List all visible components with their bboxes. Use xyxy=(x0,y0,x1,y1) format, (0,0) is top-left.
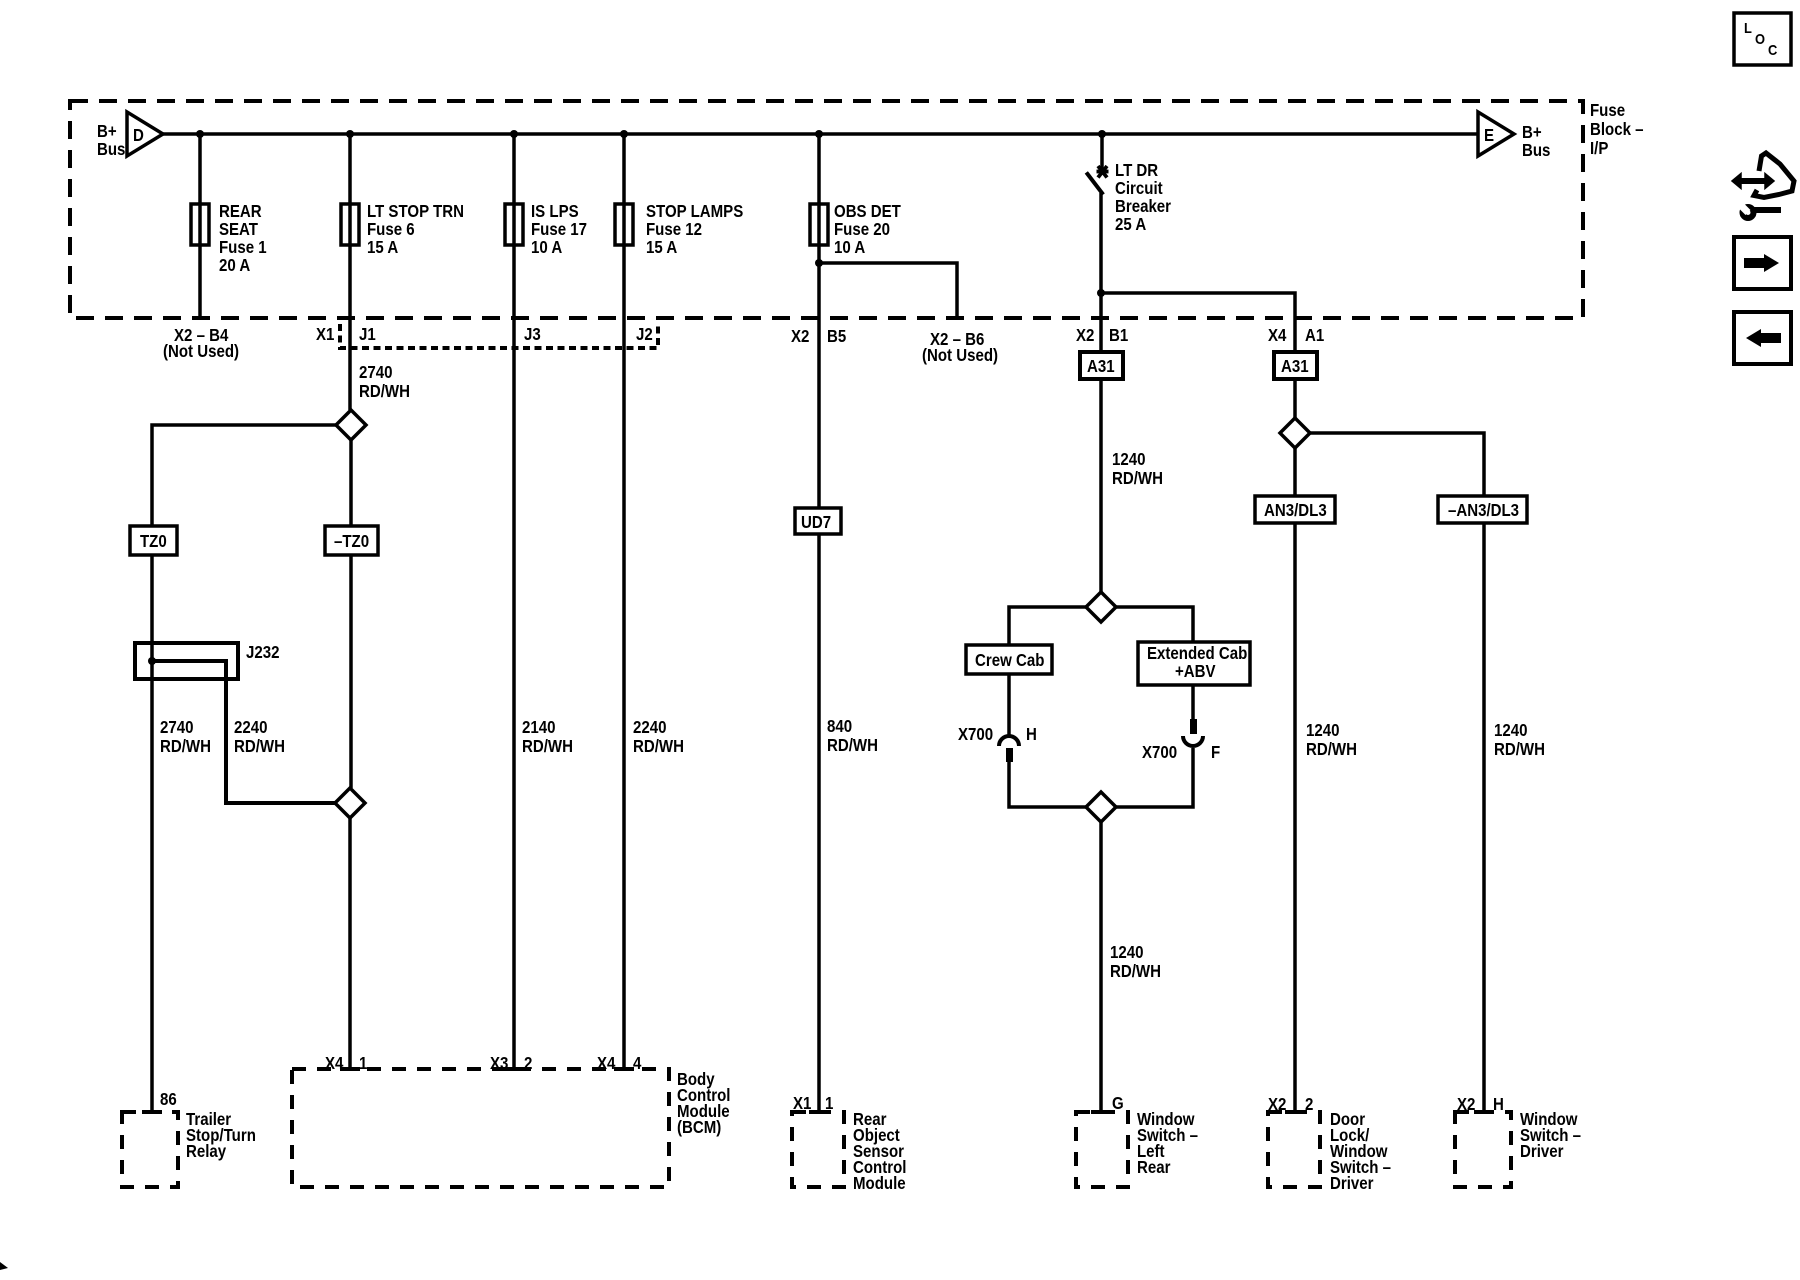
wire: splice S1 left branch xyxy=(152,425,336,526)
option box -AN3/DL3 xyxy=(1438,496,1527,523)
inner connector dotted bracket xyxy=(340,324,658,348)
B+ bus wire xyxy=(163,132,1479,136)
svg-text:4: 4 xyxy=(633,1054,641,1073)
fuse block I/P dashed outline xyxy=(70,101,1583,318)
svg-text:2240: 2240 xyxy=(234,718,267,737)
wire: X700 F down and to splice S4 xyxy=(1116,748,1193,807)
svg-text:1240: 1240 xyxy=(1494,721,1527,740)
connector label X2-B6 xyxy=(922,330,998,365)
legend doodle icon xyxy=(1732,153,1794,218)
wire: Extended Cab down to X700 F xyxy=(1191,685,1195,719)
svg-text:1240: 1240 xyxy=(1306,721,1339,740)
svg-text:I/P: I/P xyxy=(1590,139,1609,158)
window switch driver dashed box xyxy=(1455,1110,1581,1187)
svg-text:X1: X1 xyxy=(316,325,334,344)
svg-text:Driver: Driver xyxy=(1330,1174,1374,1193)
wire: J1 drop xyxy=(348,134,352,410)
pin labels X4 1 xyxy=(325,1054,367,1073)
node: bus junction at x=200 xyxy=(196,130,204,138)
svg-text:Driver: Driver xyxy=(1520,1142,1564,1161)
fuse F12 STOP LAMPS xyxy=(615,202,743,257)
wire: breaker drop top xyxy=(1100,134,1104,169)
wire label 2740 RD/WH xyxy=(160,718,211,756)
svg-text:B+: B+ xyxy=(97,122,117,141)
wire: S5 right branch xyxy=(1310,433,1484,496)
connector X700 F xyxy=(1142,719,1220,762)
svg-text:RD/WH: RD/WH xyxy=(1306,740,1357,759)
wire: OBS DET drop xyxy=(817,134,821,1112)
svg-text:RD/WH: RD/WH xyxy=(234,737,285,756)
option box Crew Cab xyxy=(966,645,1052,674)
wire label 2740 RD/WH (top) xyxy=(359,363,410,401)
fuse F20 OBS DET xyxy=(810,202,901,257)
option box TZ0 xyxy=(130,526,177,555)
node: junction below fuse 20 xyxy=(815,259,823,267)
svg-text:15 A: 15 A xyxy=(367,238,398,257)
connector label X2-B4 xyxy=(163,326,239,361)
svg-text:(Not Used): (Not Used) xyxy=(922,346,998,365)
wire label 840 RD/WH xyxy=(827,717,878,755)
splice diamond S5 xyxy=(1280,418,1310,448)
wire: X700 H down and to splice S4 xyxy=(1009,762,1086,807)
connector box A31 (left) xyxy=(1080,352,1123,379)
wire: -TZ0 chain from S1 xyxy=(349,440,353,526)
svg-text:F: F xyxy=(1211,743,1220,762)
svg-text:RD/WH: RD/WH xyxy=(633,737,684,756)
wire: AN3/DL3 down to door lock switch xyxy=(1293,523,1297,1112)
svg-text:Fuse: Fuse xyxy=(1590,101,1625,120)
svg-text:(BCM): (BCM) xyxy=(677,1118,721,1137)
door lock/window switch driver dashed box xyxy=(1268,1110,1391,1193)
wire: S2 down to BCM X4/1 xyxy=(348,818,352,1069)
svg-text:X2: X2 xyxy=(791,327,809,346)
svg-text:J1: J1 xyxy=(359,325,376,344)
splice diamond S1 xyxy=(336,410,366,440)
svg-text:Fuse 1: Fuse 1 xyxy=(219,238,267,257)
svg-text:Block –: Block – xyxy=(1590,120,1644,139)
svg-text:1240: 1240 xyxy=(1110,943,1143,962)
svg-text:Rear: Rear xyxy=(1137,1158,1171,1177)
node: bus junction at x=624 xyxy=(620,130,628,138)
B+ Bus destination triangle E xyxy=(1478,112,1550,160)
fuse block label xyxy=(1590,101,1644,158)
connector box A31 (right) xyxy=(1274,352,1317,379)
wire: S3 left branch to Crew Cab xyxy=(1009,607,1086,645)
svg-text:C: C xyxy=(1768,41,1777,58)
wire: S5 down to AN3/DL3 xyxy=(1293,448,1297,496)
svg-text:LT STOP TRN: LT STOP TRN xyxy=(367,202,464,221)
rear object sensor control module dashed box xyxy=(792,1110,906,1193)
svg-text:Extended Cab: Extended Cab xyxy=(1147,644,1247,663)
wire: branch right to X4/A1 xyxy=(1101,293,1295,352)
svg-text:J3: J3 xyxy=(524,325,541,344)
svg-text:RD/WH: RD/WH xyxy=(160,737,211,756)
svg-text:OBS DET: OBS DET xyxy=(834,202,901,221)
node: bus junction at x=819 xyxy=(815,130,823,138)
svg-text:RD/WH: RD/WH xyxy=(1494,740,1545,759)
wire entry bars on dashed boxes xyxy=(142,1069,1494,1112)
svg-text:10 A: 10 A xyxy=(834,238,865,257)
svg-text:25 A: 25 A xyxy=(1115,215,1146,234)
svg-text:+ABV: +ABV xyxy=(1175,662,1216,681)
svg-text:–TZ0: –TZ0 xyxy=(334,532,369,551)
svg-text:2140: 2140 xyxy=(522,718,555,737)
pin labels X3 2 xyxy=(490,1054,532,1073)
svg-text:RD/WH: RD/WH xyxy=(1110,962,1161,981)
svg-text:RD/WH: RD/WH xyxy=(359,382,410,401)
svg-text:(Not Used): (Not Used) xyxy=(163,342,239,361)
splice pack J232 xyxy=(135,643,279,679)
svg-text:Fuse 20: Fuse 20 xyxy=(834,220,890,239)
svg-text:X2: X2 xyxy=(1076,326,1094,345)
wire: breaker down to junction xyxy=(1099,193,1103,293)
node: bus junction at x=350 xyxy=(346,130,354,138)
BCM dashed box xyxy=(292,1069,730,1187)
wire: branch to X2-B6 xyxy=(819,263,957,318)
svg-text:D: D xyxy=(133,126,144,145)
splice diamond S4 xyxy=(1086,792,1116,822)
wire label 1240 RD/WH xyxy=(1306,721,1357,759)
svg-text:L: L xyxy=(1744,19,1752,36)
node: junction inside J232 xyxy=(148,657,156,665)
svg-text:20 A: 20 A xyxy=(219,256,250,275)
wire: -AN3/DL3 down to window switch driver xyxy=(1482,523,1486,1112)
svg-text:B+: B+ xyxy=(1522,123,1542,142)
legend right-arrow box xyxy=(1734,237,1791,289)
B+ Bus source triangle D xyxy=(97,112,163,159)
fuse F6 LT STOP TRN xyxy=(341,202,464,257)
svg-text:Crew Cab: Crew Cab xyxy=(975,651,1044,670)
wire label 1240 RD/WH xyxy=(1494,721,1545,759)
connector X700 H xyxy=(958,725,1037,762)
node: bus junction at x=514 xyxy=(510,130,518,138)
svg-text:Circuit: Circuit xyxy=(1115,179,1163,198)
wire: fuse1 drop X2-B4 xyxy=(198,134,202,318)
option box UD7 xyxy=(795,508,841,534)
svg-text:Fuse 12: Fuse 12 xyxy=(646,220,702,239)
svg-text:86: 86 xyxy=(160,1090,177,1109)
window switch left rear dashed box xyxy=(1076,1110,1198,1187)
svg-text:–AN3/DL3: –AN3/DL3 xyxy=(1448,501,1519,520)
svg-text:Relay: Relay xyxy=(186,1142,226,1161)
svg-text:2740: 2740 xyxy=(160,718,193,737)
svg-text:B1: B1 xyxy=(1109,326,1128,345)
svg-text:Breaker: Breaker xyxy=(1115,197,1172,216)
wire label 2240 RD/WH xyxy=(633,718,684,756)
fuse F1 REAR SEAT xyxy=(191,202,267,275)
wire through J232 down to trailer relay xyxy=(150,643,154,1112)
svg-text:Module: Module xyxy=(853,1174,906,1193)
svg-text:UD7: UD7 xyxy=(801,513,831,532)
wire label 1240 RD/WH xyxy=(1110,943,1161,981)
svg-text:AN3/DL3: AN3/DL3 xyxy=(1264,501,1327,520)
svg-text:J2: J2 xyxy=(636,325,653,344)
svg-text:TZ0: TZ0 xyxy=(140,532,167,551)
svg-text:A1: A1 xyxy=(1305,326,1324,345)
svg-text:X700: X700 xyxy=(1142,743,1177,762)
connector labels X2 B1 xyxy=(1076,326,1128,345)
svg-text:RD/WH: RD/WH xyxy=(1112,469,1163,488)
svg-text:X4: X4 xyxy=(1268,326,1286,345)
wire: J232 branch to 2240 xyxy=(152,661,335,803)
svg-text:10 A: 10 A xyxy=(531,238,562,257)
fuse F17 IS LPS xyxy=(505,202,587,257)
splice diamond S3 xyxy=(1086,592,1116,622)
svg-text:X700: X700 xyxy=(958,725,993,744)
pin labels X1 1 xyxy=(793,1094,833,1113)
wire: J3 drop down to BCM X3/2 xyxy=(512,134,516,1069)
wire: S3 right branch to Extended Cab xyxy=(1116,607,1193,642)
wire: TZ0 down to J232 xyxy=(150,555,154,643)
pin labels X4 4 xyxy=(597,1054,641,1073)
node: bus junction at x=1102 xyxy=(1098,130,1106,138)
svg-text:H: H xyxy=(1493,1095,1504,1114)
pin labels X2 2 xyxy=(1268,1095,1313,1114)
wire label 1240 RD/WH xyxy=(1112,450,1163,488)
svg-text:RD/WH: RD/WH xyxy=(522,737,573,756)
trailer stop/turn relay dashed box xyxy=(122,1110,256,1187)
connector labels X1 J1 xyxy=(316,325,376,344)
svg-text:Fuse 6: Fuse 6 xyxy=(367,220,415,239)
svg-text:2740: 2740 xyxy=(359,363,392,382)
svg-text:1240: 1240 xyxy=(1112,450,1145,469)
node: junction at breaker branch xyxy=(1097,289,1105,297)
svg-text:E: E xyxy=(1484,126,1494,145)
wire: S4 down to window switch left rear xyxy=(1099,822,1103,1112)
legend left-arrow box xyxy=(1734,312,1791,364)
svg-text:15 A: 15 A xyxy=(646,238,677,257)
wire: J2 drop down to BCM X4/4 xyxy=(622,134,626,1069)
svg-text:IS LPS: IS LPS xyxy=(531,202,579,221)
option box AN3/DL3 xyxy=(1255,496,1335,523)
wire: X4/A1 drop to splice S5 xyxy=(1293,379,1297,418)
wire label 2140 RD/WH xyxy=(522,718,573,756)
wire: -TZ0 down to splice S2 xyxy=(349,555,353,788)
svg-text:O: O xyxy=(1755,30,1765,47)
connector labels X2 B5 xyxy=(791,327,846,346)
pin labels X2 H xyxy=(1457,1095,1504,1114)
svg-text:1: 1 xyxy=(359,1054,367,1073)
option box -TZ0 xyxy=(325,526,378,555)
wire: Crew Cab down to X700 H xyxy=(1007,674,1011,735)
svg-text:J232: J232 xyxy=(246,643,279,662)
svg-text:2240: 2240 xyxy=(633,718,666,737)
connector labels X4 A1 xyxy=(1268,326,1324,345)
svg-text:STOP LAMPS: STOP LAMPS xyxy=(646,202,743,221)
svg-text:840: 840 xyxy=(827,717,852,736)
svg-text:LT DR: LT DR xyxy=(1115,161,1158,180)
svg-text:A31: A31 xyxy=(1281,357,1309,376)
svg-text:Bus: Bus xyxy=(97,140,125,159)
svg-text:RD/WH: RD/WH xyxy=(827,736,878,755)
page corner mark xyxy=(0,1262,8,1270)
svg-text:B5: B5 xyxy=(827,327,846,346)
svg-text:Fuse 17: Fuse 17 xyxy=(531,220,587,239)
svg-text:H: H xyxy=(1026,725,1037,744)
wire: X2/B1 down through A31 xyxy=(1099,293,1103,592)
LOC legend box xyxy=(1734,13,1791,65)
circuit breaker LT DR xyxy=(1088,161,1172,234)
svg-text:Bus: Bus xyxy=(1522,141,1550,160)
svg-text:REAR: REAR xyxy=(219,202,262,221)
svg-text:A31: A31 xyxy=(1087,357,1115,376)
option box Extended Cab +ABV xyxy=(1138,642,1250,685)
wire label 2240 RD/WH xyxy=(234,718,285,756)
svg-text:SEAT: SEAT xyxy=(219,220,258,239)
splice diamond S2 xyxy=(335,788,365,818)
